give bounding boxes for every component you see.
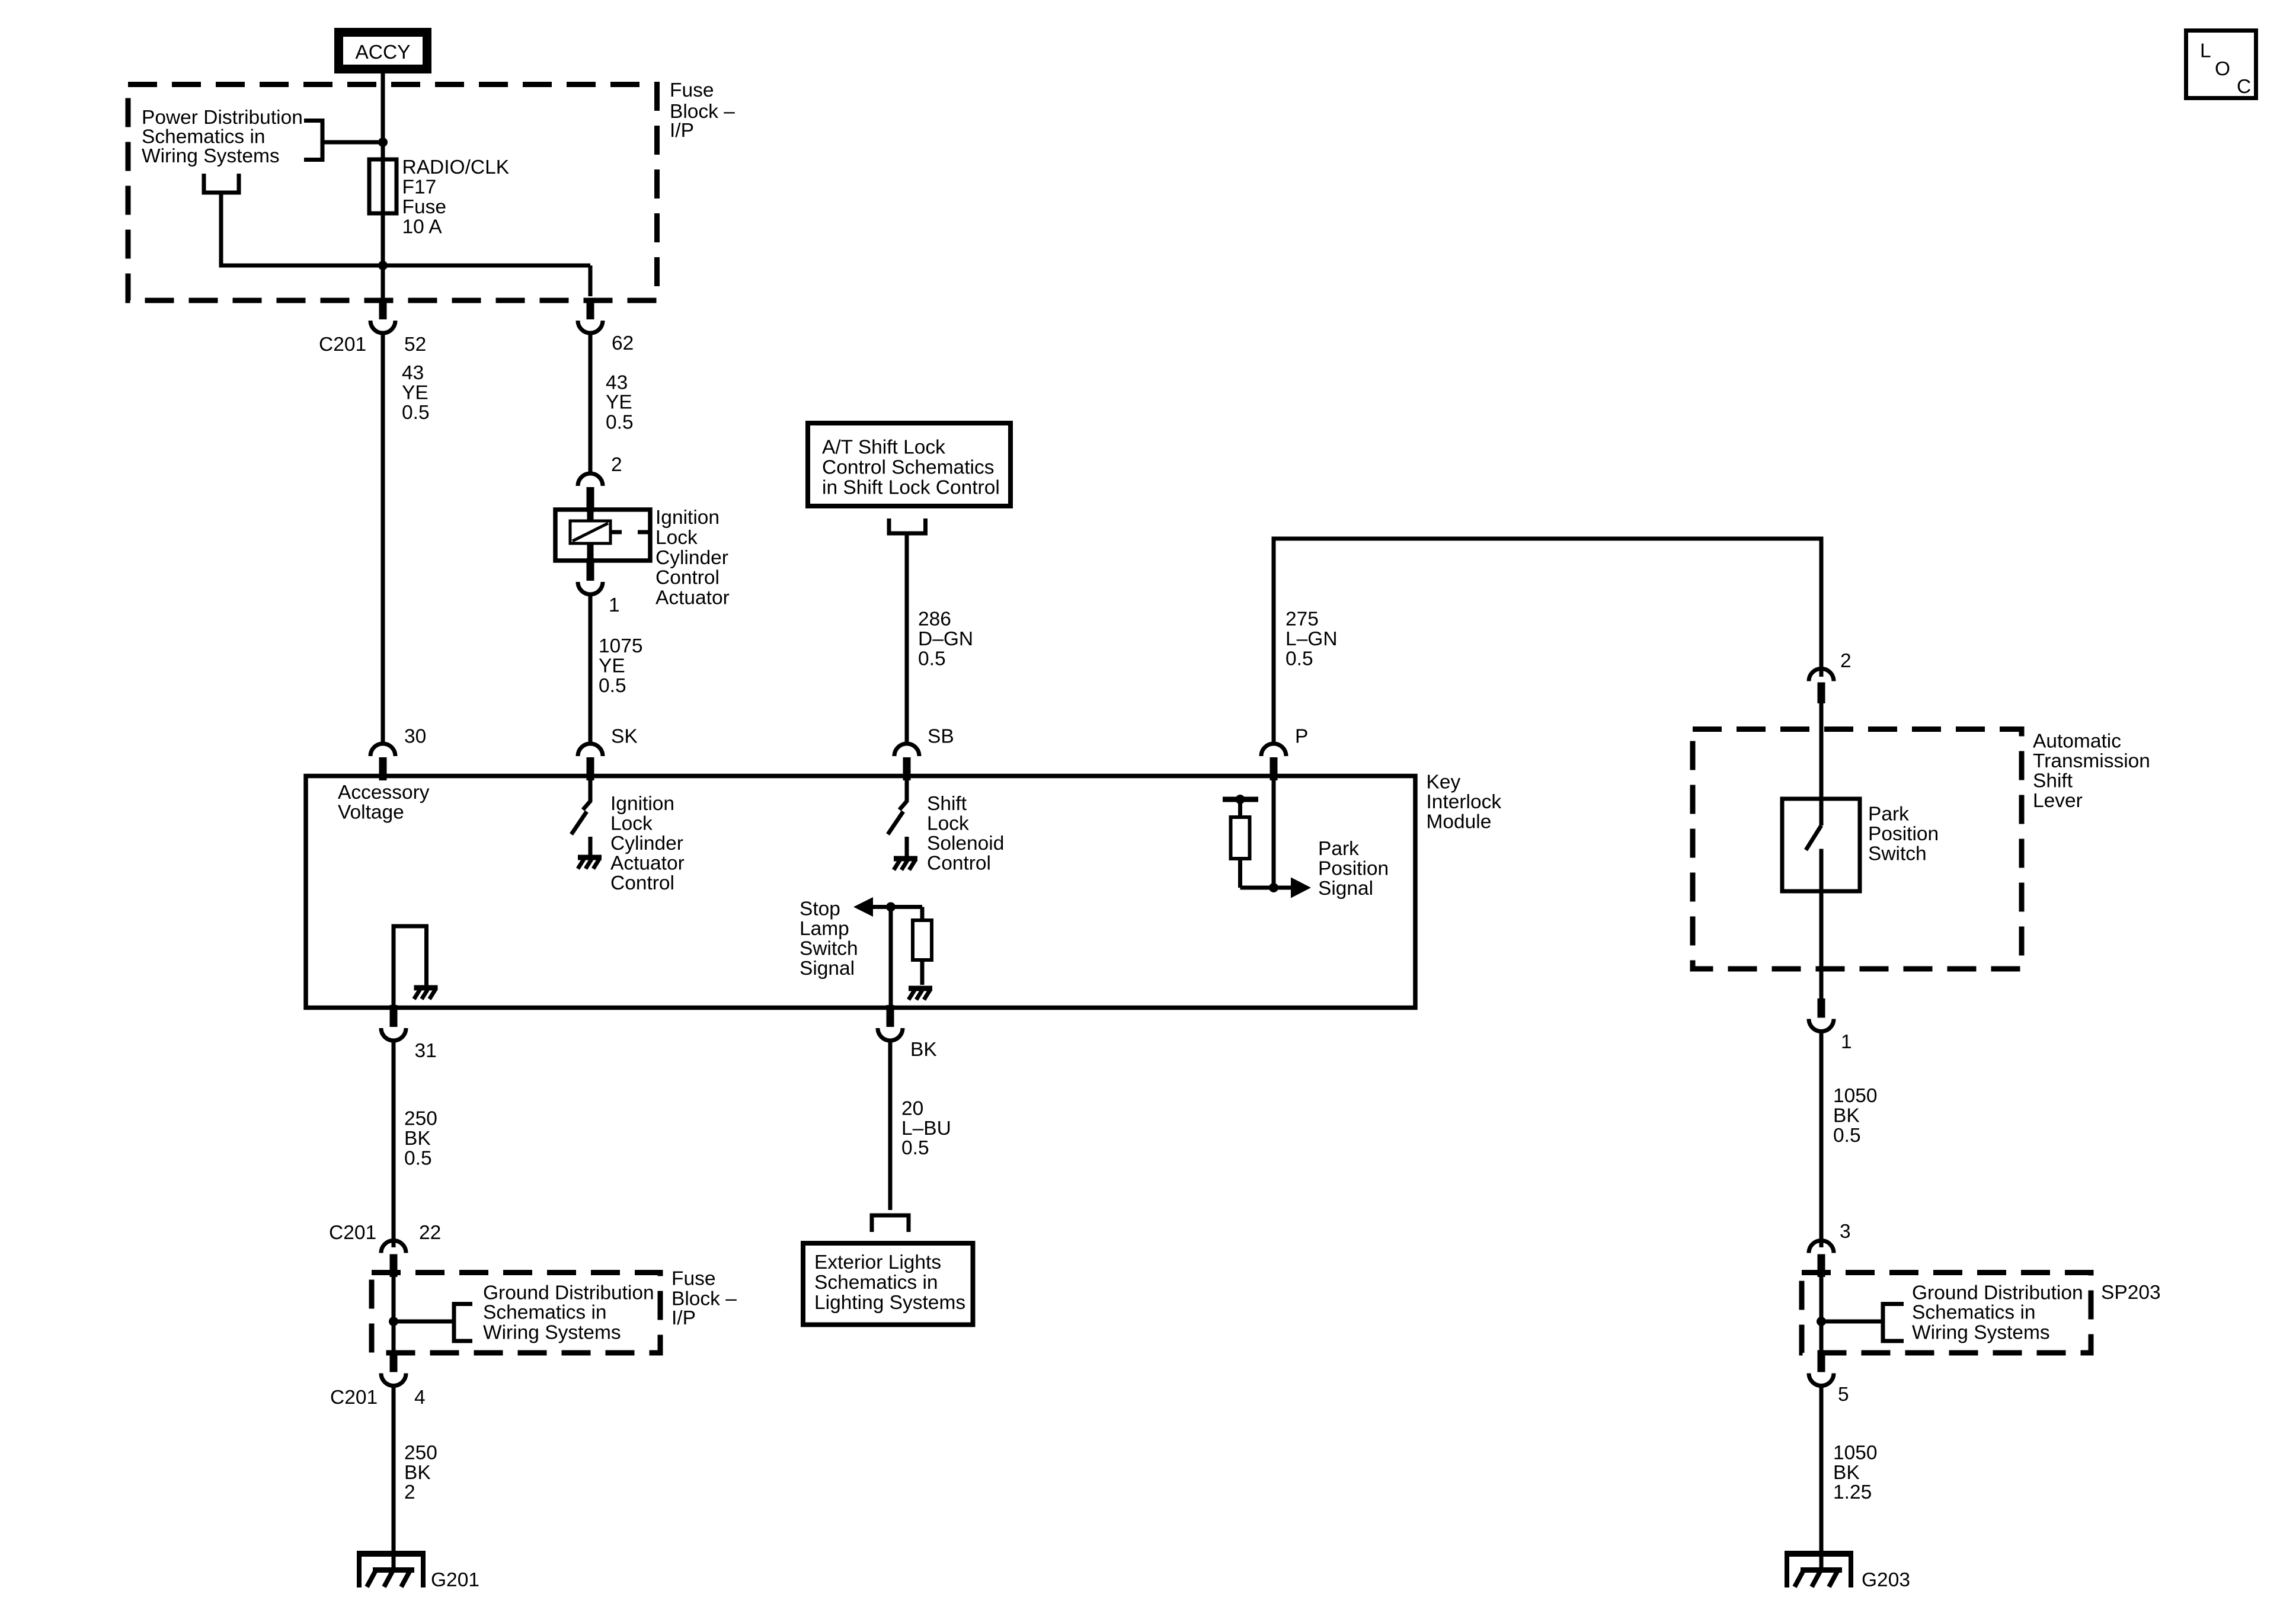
connector pin SK [578,744,603,780]
switch SK (ignition lock cylinder actuator control) [583,778,591,810]
svg-text:SP203: SP203 [2101,1282,2161,1304]
wire 1050 BK 0.5 [1819,1030,1824,1247]
park position switch box [1782,799,1860,891]
ground G203 [1785,1551,1853,1587]
svg-text:5: 5 [1838,1384,1849,1406]
junction dot on bar [1236,795,1245,804]
wire through ground distribution box [392,1274,396,1352]
wire P pin internal [1272,778,1276,888]
ground lead SB [905,837,909,856]
park position switch blade [1806,825,1821,850]
park position signal pull-up bar [1223,797,1258,802]
fuse block internal bus wire [221,264,590,268]
svg-text:BK: BK [910,1039,937,1061]
park position switch lower contact [1819,849,1824,1000]
svg-text:P: P [1295,726,1308,748]
connector pin 2 (ignition lock actuator) [578,473,603,512]
junction dot B [378,261,388,270]
svg-text:62: 62 [612,332,634,354]
wire 250 BK 2 [392,1385,396,1570]
wire 43 YE 0.5 (right) [589,331,593,472]
arrow stop lamp switch signal [853,897,873,917]
wire 1075 YE 0.5 [589,594,593,742]
svg-text:4: 4 [414,1387,426,1409]
exterior lights schematics box [803,1243,973,1325]
svg-text:22: 22 [419,1222,441,1244]
wire ACCY to fuse F17 [381,73,385,298]
resistor R (stop lamp) [920,907,925,921]
junction dot BK [886,902,896,912]
wire BK pin internal [889,907,893,1008]
stop lamp signal line [872,905,922,909]
svg-text:SK: SK [611,726,638,748]
ignition lock cylinder control actuator box [555,510,650,561]
svg-text:31: 31 [415,1040,437,1062]
connector pin P [1261,744,1286,780]
key interlock module box [306,776,1415,1008]
svg-text:52: 52 [404,334,426,356]
internal ground staple (pin 31) [394,926,427,1007]
chassis ground staple [414,988,438,999]
bracket to ground distribution label (right) [1821,1302,1904,1343]
svg-text:G203: G203 [1862,1569,1910,1591]
ground distribution dashed box (left) [372,1273,660,1353]
svg-text:2: 2 [611,454,622,476]
wire 275 L-GN to park position switch [1274,539,1821,742]
chassis ground SK [578,857,602,869]
fuse block I/P dashed box [128,85,657,301]
connector pin 31 [381,1005,406,1041]
wire 43 YE 0.5 (left) [381,331,385,742]
connector pin 30 [370,744,395,780]
wire bus corner to connector 62 [589,265,593,296]
connector pin 3 (SP203) [1809,1241,1834,1278]
svg-text:C: C [2237,76,2251,98]
connector pin 1 (ignition lock actuator) [578,558,603,594]
connector C201 pin 22 [381,1241,406,1278]
svg-text:1: 1 [1841,1031,1852,1053]
svg-text:O: O [2215,58,2230,80]
svg-text:C201: C201 [319,334,366,356]
resistor R (park position) [1238,802,1242,817]
connector pin 1 (park position switch) [1809,998,1834,1032]
arrow park position signal [1291,878,1311,898]
connector pin BK [878,1005,903,1041]
wire 286 D-GN 0.5 [905,536,909,742]
connector C201 pin 52 [370,298,395,333]
connector pin SB [894,744,919,780]
svg-text:SB: SB [928,726,954,748]
connector pin 62 [578,298,603,333]
wire into park position switch [1819,701,1824,825]
svg-text:L: L [2200,40,2211,62]
svg-text:G201: G201 [431,1569,479,1591]
ground G201 [357,1551,426,1587]
wire 1050 BK 1.25 [1819,1385,1824,1570]
connector pin 5 (SP203) [1809,1350,1834,1386]
svg-text:3: 3 [1840,1221,1851,1243]
wire fuse to connector 52 [381,261,385,298]
svg-text:IgnitionLockCylinderActuatorCo: IgnitionLockCylinderActuatorControl [610,793,685,894]
wire through SP203 box [1819,1274,1824,1352]
automatic transmission shift lever dashed box [1693,729,2022,969]
connector C201 pin 4 [381,1350,406,1386]
svg-text:ACCY: ACCY [355,41,410,63]
bracket under A/T shift lock box [887,518,928,536]
svg-text:IgnitionLockCylinderControlAct: IgnitionLockCylinderControlActuator [655,507,730,609]
svg-text:30: 30 [404,726,426,748]
bracket to ground distribution label (left) [394,1302,472,1343]
exterior lights bracket [870,1215,911,1232]
bracket (power distribution down-reference) [202,174,241,268]
park position signal line [1240,886,1293,890]
actuator element [570,510,650,561]
A/T shift lock control reference box [808,423,1011,506]
svg-text:C201: C201 [330,1387,378,1409]
chassis ground SB [894,859,917,870]
svg-text:C201: C201 [329,1222,376,1244]
junction dot A [378,137,388,147]
chassis ground stop lamp [909,988,932,1000]
svg-text:2: 2 [1840,650,1851,672]
SP203 ground distribution dashed box [1802,1273,2091,1353]
wire 250 BK 0.5 [392,1040,396,1247]
bracket to Power Distribution label [304,119,380,162]
LOC legend box [2186,31,2256,98]
power feed ACCY box [339,33,427,69]
junction dot ground dist [389,1317,398,1326]
fuse RADIO/CLK F17 body [369,159,396,213]
junction dot SP203 [1817,1317,1826,1326]
junction dot P [1269,883,1278,892]
svg-text:1: 1 [609,594,620,616]
connector pin 2 (park position switch) [1809,669,1834,704]
switch SB (shift lock solenoid control) [900,778,907,810]
wire 20 L-BU 0.5 [888,1040,893,1210]
ground lead SK [589,837,593,855]
